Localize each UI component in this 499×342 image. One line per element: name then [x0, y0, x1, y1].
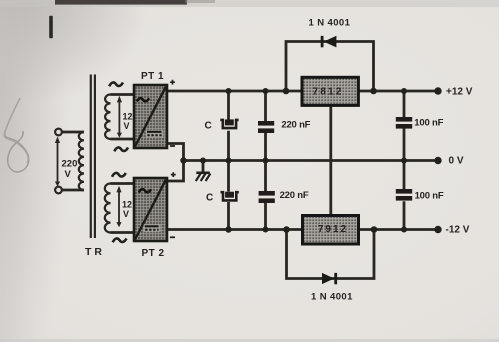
regulator 7912	[303, 216, 359, 245]
output terminal +12V	[434, 87, 441, 94]
svg-text:220 nF: 220 nF	[281, 120, 310, 131]
diode D1 1N4001 top	[321, 36, 337, 48]
svg-text:PT 1: PT 1	[141, 71, 164, 82]
scan artifact: pencil squiggle left edge	[5, 98, 29, 172]
svg-text:12: 12	[122, 200, 132, 210]
wire: -12V bottom rail	[166, 228, 438, 231]
svg-text:1 N 4001: 1 N 4001	[311, 292, 353, 303]
scan artifact: vertical tick mark	[49, 16, 53, 38]
wire: regulator ground pins	[329, 105, 332, 215]
bridge rectifier PT1	[134, 85, 167, 148]
wire: 100nF branch segments	[403, 91, 406, 230]
svg-text:+12 V: +12 V	[446, 87, 473, 98]
svg-text:1 N 4001: 1 N 4001	[309, 18, 351, 29]
diode D2 1N4001 bottom	[322, 273, 337, 284]
svg-text:7812: 7812	[312, 87, 343, 98]
svg-text:V: V	[123, 209, 129, 219]
output terminal -12V	[434, 226, 441, 233]
wire: lower secondary to PT2	[111, 184, 135, 233]
junction dots 0V rail	[180, 157, 407, 163]
junction dots top rail	[226, 88, 408, 95]
AC squiggle above lower secondary	[112, 173, 126, 177]
capacitor 100nF upper	[396, 117, 412, 129]
svg-text:100 nF: 100 nF	[415, 190, 444, 201]
AC squiggle below upper secondary	[114, 147, 128, 151]
wire: 220nF branch segments	[264, 91, 267, 230]
svg-text:220: 220	[62, 159, 78, 170]
svg-text:C: C	[205, 121, 212, 132]
svg-text:PT 2: PT 2	[142, 248, 165, 259]
AC squiggle above upper secondary	[109, 82, 123, 86]
wire: C1 branch segments	[227, 91, 230, 230]
svg-text:C: C	[206, 193, 213, 204]
svg-text:TR: TR	[85, 246, 105, 258]
primary winding 220V	[79, 132, 84, 190]
wire: 0V mid rail	[184, 159, 439, 162]
svg-text:-12 V: -12 V	[446, 225, 470, 236]
scan artifact: dark bar top	[55, 0, 187, 5]
arrow 220V	[55, 137, 60, 187]
upper secondary winding	[105, 95, 110, 140]
svg-text:220 nF: 220 nF	[280, 190, 309, 201]
svg-text:100 nF: 100 nF	[414, 118, 443, 129]
svg-text:12: 12	[123, 112, 133, 122]
wire: PT2 plus to 0V node	[166, 161, 184, 182]
AC squiggle below lower secondary	[113, 238, 127, 242]
svg-text:V: V	[65, 169, 72, 180]
ground symbol	[196, 173, 211, 181]
wire: primary terminals to coil	[63, 132, 85, 190]
svg-text:7912: 7912	[318, 224, 348, 235]
lower secondary winding	[105, 184, 111, 233]
transformer core TR	[91, 75, 95, 239]
regulator 7812	[302, 77, 358, 105]
svg-text:0 V: 0 V	[449, 156, 464, 167]
wire: PT1 minus to 0V node	[166, 144, 184, 161]
wire: ground stub	[202, 161, 205, 172]
wire: top diode loop	[286, 42, 374, 92]
minus mark PT2 output	[170, 236, 175, 238]
capacitor C upper (electrolytic)	[220, 119, 238, 128]
capacitor 100nF lower	[396, 189, 412, 201]
arrow 12V lower	[116, 186, 121, 228]
wire: +12V top rail	[166, 90, 438, 93]
plus mark PT1 output	[170, 80, 175, 85]
arrow 12V upper	[117, 96, 122, 138]
capacitor 220nF upper	[258, 121, 274, 133]
capacitor C lower (electrolytic)	[221, 192, 239, 201]
capacitor 220nF lower	[259, 191, 275, 203]
plus mark PT2 output	[171, 172, 176, 177]
minus mark PT1 output	[170, 145, 175, 147]
primary terminal bottom	[55, 187, 62, 194]
junction dots -12V rail	[225, 226, 407, 233]
output terminal 0V	[434, 157, 441, 164]
primary terminal top	[55, 129, 62, 136]
svg-text:V: V	[124, 121, 130, 131]
wire: bottom diode loop	[287, 230, 375, 279]
bridge rectifier PT2	[134, 178, 167, 241]
wire: upper secondary to PT1	[111, 95, 135, 140]
